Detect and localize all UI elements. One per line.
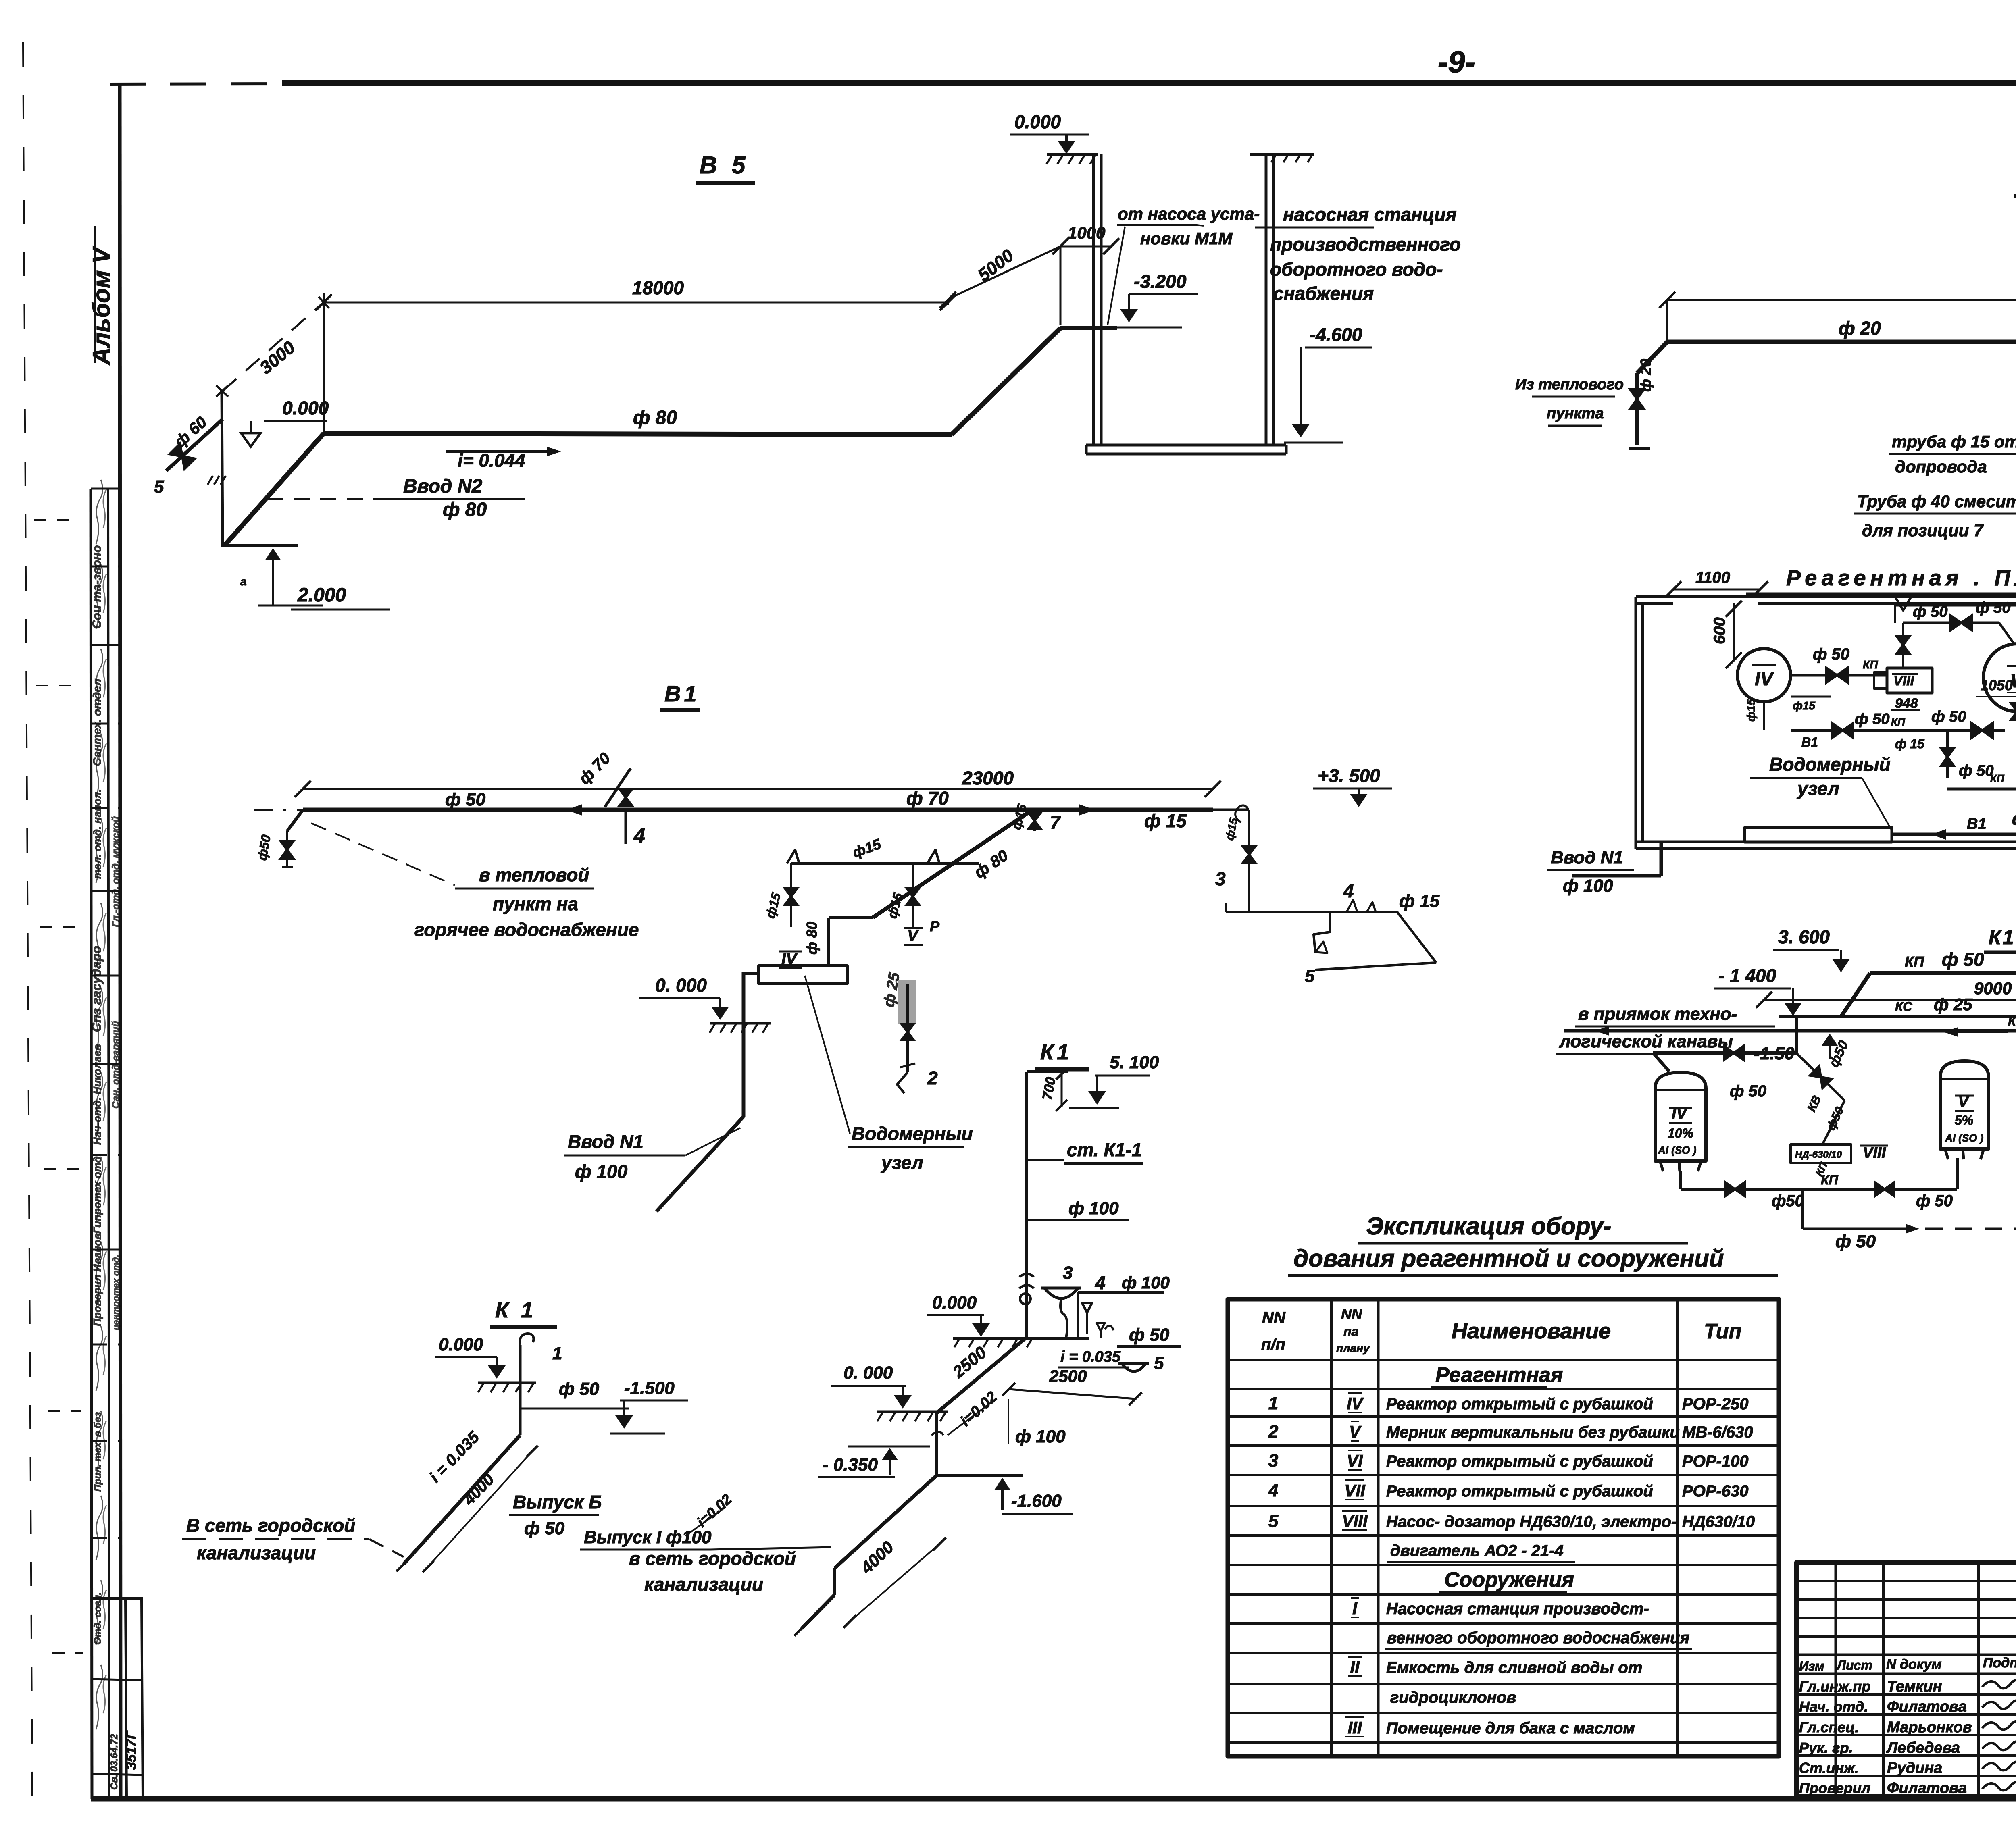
K1 f100 leader <box>1008 1399 1009 1444</box>
svg-text:Темкин: Темкин <box>1887 1678 1942 1695</box>
svg-text:Св. 03.64.72: Св. 03.64.72 <box>109 1734 120 1790</box>
svg-text:ф 50: ф 50 <box>1959 762 1993 779</box>
svg-text:4: 4 <box>633 824 645 847</box>
svg-text:10%: 10% <box>1668 1126 1693 1140</box>
svg-text:-4.600: -4.600 <box>1310 324 1362 345</box>
svg-text:V: V <box>907 927 919 945</box>
svg-text:Насосная станция производст: Насосная станция производст- <box>1386 1600 1649 1618</box>
svg-text:плану: плану <box>1336 1342 1370 1354</box>
svg-text:К17: К17 <box>2008 1014 2016 1028</box>
svg-text:5. 100: 5. 100 <box>1110 1053 1159 1072</box>
svg-text:для позиции 7: для позиции 7 <box>1862 521 1984 540</box>
B1 dimension line 23000 <box>303 788 1213 790</box>
svg-text:К1: К1 <box>1040 1040 1072 1064</box>
svg-text:5: 5 <box>154 477 164 497</box>
svg-text:в сеть городской: в сеть городской <box>629 1548 796 1569</box>
svg-text:Сои та-звоно: Сои та-звоно <box>90 545 104 629</box>
explication table frame <box>1228 1299 1779 1756</box>
svg-text:Сантех. отдел: Сантех. отдел <box>91 678 103 766</box>
svg-text:Марьонков: Марьонков <box>1887 1719 1972 1736</box>
svg-text:600: 600 <box>1711 617 1729 644</box>
K1 sink 5 <box>1122 1363 1146 1371</box>
svg-text:3: 3 <box>1268 1451 1278 1471</box>
svg-text:Экспликация обору-: Экспликация обору- <box>1366 1213 1611 1240</box>
B1 junction diagonal f80 <box>873 810 1032 918</box>
tank IV <box>1655 1072 1706 1161</box>
svg-text:Емкость для сливной воды о: Емкость для сливной воды от <box>1386 1659 1642 1677</box>
svg-text:Сооружения: Сооружения <box>1444 1568 1574 1592</box>
K17 main lower pipe <box>1564 1029 2016 1033</box>
svg-text:- 0.350: - 0.350 <box>823 1455 878 1475</box>
B1 water meter unit rect <box>759 966 847 984</box>
svg-text:0. 000: 0. 000 <box>843 1363 893 1383</box>
svg-text:VIII: VIII <box>1342 1512 1368 1531</box>
pump pit floor slab <box>1086 444 1286 447</box>
svg-text:Водомерный: Водомерный <box>1769 754 1891 775</box>
svg-text:ф 70: ф 70 <box>906 788 949 809</box>
svg-text:новки М1М: новки М1М <box>1140 229 1233 248</box>
svg-text:КС: КС <box>1895 999 1912 1014</box>
svg-text:23000: 23000 <box>962 768 1014 789</box>
svg-text:Труба ф 40 смеситель: Труба ф 40 смеситель <box>1857 492 2016 511</box>
svg-text:Реагентная . План. М1:50: Реагентная . План. М1:50 <box>1786 566 2016 590</box>
pump pit left wall <box>1092 154 1095 445</box>
svg-text:Подп.: Подп. <box>1983 1655 2016 1671</box>
svg-text:В1: В1 <box>1967 816 1987 832</box>
svg-text:насосная станция: насосная станция <box>1283 204 1457 225</box>
T3 main pipe <box>1667 340 2016 344</box>
svg-text:Гл.спец.: Гл.спец. <box>1799 1719 1859 1735</box>
svg-text:логической канавы: логической канавы <box>1559 1032 1733 1051</box>
svg-text:-9-: -9- <box>1438 45 1475 79</box>
B5 pipe stub into pit <box>1060 326 1117 330</box>
B5 riser vertical <box>323 302 325 433</box>
K1 sink 3 <box>1044 1288 1078 1298</box>
svg-text:ф 50: ф 50 <box>1813 645 1849 663</box>
plan K17 line top <box>1895 605 2016 607</box>
svg-text:Ст.инж.: Ст.инж. <box>1799 1760 1859 1776</box>
K1 reference line -1.600 <box>937 1474 1023 1477</box>
svg-text:РОР-100: РОР-100 <box>1682 1452 1749 1470</box>
svg-text:Ввод N1: Ввод N1 <box>568 1131 644 1152</box>
plan bottom wall <box>1636 841 2016 843</box>
svg-text:ф 80: ф 80 <box>633 407 677 429</box>
svg-text:ф 80: ф 80 <box>2012 809 2016 829</box>
svg-text:4: 4 <box>1268 1481 1278 1500</box>
B5 dimension 1000 <box>1060 246 1111 248</box>
left margin stamp column verticals <box>91 489 92 1799</box>
plan vvod N1 entry <box>1572 874 1661 878</box>
svg-text:канализации: канализации <box>197 1542 316 1563</box>
svg-text:ф 20: ф 20 <box>1637 359 1654 392</box>
svg-text:В 5: В 5 <box>700 152 749 179</box>
plan upper f50 line with valves <box>1903 622 1999 624</box>
svg-text:ф 100: ф 100 <box>1563 876 1613 896</box>
K1 funnel drains <box>1082 1303 1092 1313</box>
left margin lower stamp box <box>125 1598 127 1799</box>
plan dimension 1100 <box>1673 589 1760 591</box>
B5 branch pipe f60 <box>166 419 223 471</box>
svg-text:ф 50: ф 50 <box>1855 711 1889 728</box>
svg-text:+3. 500: +3. 500 <box>1318 765 1380 786</box>
B1 label v teplovoy punkt <box>311 823 455 885</box>
left margin stamp column dividers <box>91 488 121 490</box>
svg-text:РОР-250: РОР-250 <box>1682 1395 1749 1413</box>
svg-text:VI: VI <box>1347 1451 1363 1470</box>
K1 floor line <box>953 1337 1089 1340</box>
svg-text:5: 5 <box>1154 1353 1164 1373</box>
svg-text:ф 50: ф 50 <box>524 1519 565 1538</box>
svg-text:N докум: N докум <box>1886 1657 1942 1672</box>
K1 lower diagonal vypusk <box>835 1475 937 1568</box>
svg-text:0.000: 0.000 <box>439 1335 483 1354</box>
svg-text:1: 1 <box>552 1344 562 1363</box>
svg-text:i = 0.035: i = 0.035 <box>1060 1348 1121 1365</box>
svg-text:-1.600: -1.600 <box>1011 1491 1062 1511</box>
svg-text:Мерник вертикальныи без руба: Мерник вертикальныи без рубашки <box>1386 1423 1680 1441</box>
svg-text:производственного: производственного <box>1270 234 1461 255</box>
svg-text:-3.200: -3.200 <box>1134 271 1187 292</box>
svg-text:В сеть городской: В сеть городской <box>186 1515 355 1536</box>
left margin extra handwriting squiggles <box>96 480 103 544</box>
svg-text:ф 50: ф 50 <box>1942 949 1984 970</box>
B1 riser V <box>912 863 914 927</box>
reactor V circle <box>1983 644 2016 712</box>
B1 branch end diagonal <box>1397 912 1436 963</box>
svg-text:3517Г: 3517Г <box>124 1730 139 1770</box>
svg-text:ф 100: ф 100 <box>1015 1427 1066 1446</box>
svg-text:Выпуск Б: Выпуск Б <box>513 1492 602 1513</box>
svg-text:узел: узел <box>1797 778 1839 799</box>
svg-text:Нач. отд.: Нач. отд. <box>1799 1698 1868 1715</box>
svg-text:В1: В1 <box>664 681 700 706</box>
plan f15 inner lines <box>1791 696 1831 698</box>
explication table row lines <box>1228 1359 1779 1361</box>
svg-text:гидроциклонов: гидроциклонов <box>1390 1689 1516 1706</box>
svg-text:ф 100: ф 100 <box>575 1161 628 1182</box>
svg-text:NN: NN <box>1341 1306 1362 1322</box>
svg-text:Гл.-отд. отд. мужской: Гл.-отд. отд. мужской <box>110 816 121 927</box>
svg-text:Лебедева: Лебедева <box>1886 1739 1960 1756</box>
svg-text:ф 50: ф 50 <box>1976 599 2010 616</box>
svg-text:NN: NN <box>1262 1309 1286 1327</box>
svg-text:ф 25: ф 25 <box>1934 995 1972 1014</box>
svg-text:5: 5 <box>1305 966 1315 986</box>
plan vodomerny uzel rect <box>1745 828 1892 842</box>
B1 riser 4 with f70 flag <box>625 810 627 844</box>
K1 stack vertical <box>1025 1072 1028 1338</box>
svg-text:оборотного водо-: оборотного водо- <box>1270 259 1443 280</box>
svg-text:пункт на: пункт на <box>493 893 578 914</box>
svg-text:ф 50: ф 50 <box>445 790 486 809</box>
svg-text:В1: В1 <box>1801 735 1818 749</box>
svg-text:ф 50: ф 50 <box>1129 1325 1170 1345</box>
svg-text:0.000: 0.000 <box>1014 111 1061 132</box>
svg-text:допровода: допровода <box>1895 457 1987 476</box>
svg-text:КП: КП <box>1863 658 1878 671</box>
svg-text:7: 7 <box>1050 812 1061 833</box>
plan mid f50 line with valves <box>1791 729 2005 732</box>
pump VIII box <box>1887 668 1932 693</box>
sheet left border line <box>120 83 121 1799</box>
sheet top border line <box>282 80 2016 86</box>
svg-text:1100: 1100 <box>1695 569 1730 587</box>
svg-text:в тепловой: в тепловой <box>479 864 589 885</box>
svg-text:ф 50: ф 50 <box>1931 708 1966 725</box>
svg-text:КП: КП <box>1990 772 2005 784</box>
svg-text:ф15: ф15 <box>1793 699 1815 712</box>
svg-text:а: а <box>240 575 247 588</box>
svg-text:ф 50: ф 50 <box>1916 1192 1953 1210</box>
svg-text:от насоса уста-: от насоса уста- <box>1118 204 1260 223</box>
svg-text:Из теплового: Из теплового <box>1515 376 1624 393</box>
B5 inlet corner diagonal <box>224 433 324 546</box>
B1 riser IV <box>790 863 792 927</box>
B5 dimension 3000 diagonal <box>223 304 322 391</box>
explication table column lines <box>1330 1299 1333 1756</box>
B1 vertical to vvod <box>742 972 746 1117</box>
B1 main pipe f70 <box>303 808 1213 812</box>
svg-text:2: 2 <box>927 1067 938 1088</box>
svg-text:0. 000: 0. 000 <box>655 975 707 996</box>
B1 step to water meter <box>829 916 873 919</box>
B5 riser to pump pit diagonal <box>952 328 1060 435</box>
svg-text:5: 5 <box>1268 1511 1279 1531</box>
svg-text:НД-630/10: НД-630/10 <box>1795 1149 1842 1160</box>
svg-text:Проверил: Проверил <box>1799 1780 1870 1796</box>
svg-text:IV: IV <box>1347 1394 1364 1413</box>
title block left column verticals <box>1835 1563 1837 1796</box>
K1 vertical drop at -0.350 <box>935 1413 938 1475</box>
svg-text:ф 50: ф 50 <box>559 1379 600 1399</box>
B5 slope arrow i=0.044 <box>446 450 553 453</box>
title block header row line <box>1797 1654 2016 1656</box>
title block outer frame <box>1797 1563 2016 1796</box>
svg-text:ф 50: ф 50 <box>1730 1082 1766 1100</box>
plan 1050 650 dim line <box>1976 696 2016 697</box>
svg-text:3. 600: 3. 600 <box>1778 926 1830 947</box>
svg-text:канализации: канализации <box>644 1574 763 1595</box>
title block revision rows <box>1797 1580 2016 1582</box>
svg-text:ф50: ф50 <box>1772 1192 1804 1210</box>
B1 hook 5 <box>1314 912 1330 952</box>
svg-text:i= 0.044: i= 0.044 <box>458 450 525 471</box>
svg-text:ф 15: ф 15 <box>1144 810 1187 831</box>
svg-text:горячее водоснабжение: горячее водоснабжение <box>414 919 639 940</box>
B5 dimension 5000 <box>948 246 1060 299</box>
svg-text:Водомерныи: Водомерныи <box>852 1123 973 1144</box>
B5 left standpipe <box>222 391 223 547</box>
svg-text:Ввод N2: Ввод N2 <box>403 476 482 497</box>
svg-text:Изм: Изм <box>1799 1659 1824 1673</box>
svg-text:948: 948 <box>1895 696 1918 711</box>
title block signature row lines <box>1797 1693 2016 1696</box>
svg-text:ф 80: ф 80 <box>804 922 820 955</box>
K17 branch with rotated valve <box>1796 1053 1845 1101</box>
svg-text:Лист: Лист <box>1836 1658 1872 1673</box>
svg-text:5%: 5% <box>1955 1113 1973 1128</box>
svg-text:I: I <box>1352 1599 1358 1618</box>
K17 bottom pipe between tanks <box>1681 1188 1957 1191</box>
B1 thin pipe continuation right <box>1213 809 1249 811</box>
reactor IV circle <box>1737 649 1791 702</box>
svg-text:Помещение для бака с маслом: Помещение для бака с маслом <box>1386 1719 1635 1737</box>
B1 vvod N1 diagonal <box>656 1117 744 1211</box>
svg-text:ст. К1-1: ст. К1-1 <box>1067 1139 1142 1160</box>
B1 riser 2 with valve <box>906 984 909 1072</box>
svg-text:Альбом V: Альбом V <box>88 246 115 366</box>
svg-text:Al (SO ): Al (SO ) <box>1658 1144 1696 1156</box>
KC f25 line <box>1779 1015 2016 1018</box>
B1 riser 7 with valve <box>1033 810 1036 831</box>
svg-text:4: 4 <box>1095 1272 1106 1293</box>
svg-text:венного оборотного водоснабж: венного оборотного водоснабжения <box>1387 1629 1689 1647</box>
svg-text:- 1 400: - 1 400 <box>1718 965 1776 986</box>
svg-text:ф 100: ф 100 <box>1068 1198 1119 1218</box>
svg-text:труба ф 15 от во-: труба ф 15 от во- <box>1892 432 2016 451</box>
B1 branch 3 riser <box>1248 810 1250 912</box>
K1L riser 1 <box>519 1345 522 1435</box>
K17 dashed suction line <box>1801 1189 1804 1229</box>
sheet bottom border line <box>91 1796 2016 1802</box>
svg-text:V: V <box>1349 1422 1362 1441</box>
svg-text:Гл.инж.пр: Гл.инж.пр <box>1799 1678 1870 1695</box>
svg-text:Филатова: Филатова <box>1887 1780 1967 1797</box>
svg-text:Al (SO ): Al (SO ) <box>1945 1132 1983 1144</box>
svg-text:пункта: пункта <box>1547 405 1604 422</box>
K17 top pipe <box>1870 971 2016 975</box>
plan left wall <box>1635 597 1637 849</box>
svg-text:Ввод N1: Ввод N1 <box>1551 848 1623 868</box>
svg-text:ф 80: ф 80 <box>443 499 487 520</box>
T3 dimension line 23000 <box>1667 299 2016 301</box>
plan V1 f80 main line <box>1892 833 2016 836</box>
svg-text:Сан. отд-варяний: Сан. отд-варяний <box>110 1021 121 1109</box>
svg-text:Реактор открытый с рубашко: Реактор открытый с рубашкой <box>1386 1395 1653 1413</box>
B1 branch horizontal to 4 and 5 <box>1249 911 1397 913</box>
svg-text:ф 50: ф 50 <box>1835 1232 1876 1251</box>
svg-text:VIII: VIII <box>1863 1144 1886 1161</box>
svg-text:2500: 2500 <box>1049 1367 1087 1386</box>
pump ND-630/10 box <box>1791 1144 1851 1163</box>
svg-text:НД630/10: НД630/10 <box>1682 1513 1755 1531</box>
svg-text:Филатова: Филатова <box>1887 1698 1967 1715</box>
plan top wall <box>1636 595 2016 598</box>
svg-text:па: па <box>1343 1324 1358 1339</box>
B5 level 2.000 arrow <box>272 551 274 605</box>
svg-text:9000: 9000 <box>1974 979 2012 998</box>
svg-text:Рудина: Рудина <box>1887 1760 1942 1777</box>
B1 left end drop with valve <box>287 810 303 831</box>
B5 dimension line 18000 <box>324 302 948 304</box>
svg-text:IV: IV <box>1755 668 1774 690</box>
svg-text:ф 20: ф 20 <box>1839 318 1881 339</box>
svg-text:0.000: 0.000 <box>282 397 329 418</box>
svg-text:ф15: ф15 <box>1745 699 1757 722</box>
svg-text:ф 15: ф 15 <box>1895 737 1925 751</box>
K16 dimension 9000 <box>1764 999 2016 1001</box>
svg-text:КП: КП <box>1891 716 1906 728</box>
svg-text:Реактор открытый с рубашкой: Реактор открытый с рубашкой <box>1386 1482 1653 1500</box>
svg-text:1050: 1050 <box>1981 677 2013 693</box>
svg-text:в приямок техно-: в приямок техно- <box>1578 1004 1737 1024</box>
svg-text:Тип: Тип <box>1704 1320 1741 1343</box>
svg-text:II: II <box>1350 1658 1360 1677</box>
B5 main pipe f80 <box>324 433 952 435</box>
K1 main diagonal from floor <box>937 1338 1025 1413</box>
svg-text:Р: Р <box>930 918 940 934</box>
svg-text:ф 15: ф 15 <box>1399 891 1440 911</box>
svg-text:Насос- дозатор НД630/10, элект: Насос- дозатор НД630/10, электро- <box>1386 1513 1677 1531</box>
svg-text:узел: узел <box>881 1152 923 1173</box>
plan valve down to VII <box>1946 730 1949 778</box>
svg-text:3: 3 <box>1215 868 1226 889</box>
svg-text:III: III <box>1347 1718 1362 1737</box>
tank V <box>1940 1061 1989 1149</box>
svg-text:-1.500: -1.500 <box>624 1378 675 1398</box>
svg-text:К16, К17: К16, К17 <box>1989 926 2016 949</box>
svg-text:1000: 1000 <box>1068 223 1105 242</box>
svg-text:снабжения: снабжения <box>1273 283 1374 304</box>
T3 left drop to heat point <box>1637 342 1667 373</box>
svg-text:КП: КП <box>1905 953 1924 970</box>
svg-text:Реагентная: Реагентная <box>1435 1363 1563 1387</box>
sheet left fold dash-dot line <box>23 42 32 1798</box>
title block signatures scribbles <box>1982 1679 2016 1688</box>
svg-text:2: 2 <box>1268 1422 1279 1442</box>
B5 star node at riser top <box>319 297 329 308</box>
svg-text:2.000: 2.000 <box>297 585 346 606</box>
svg-text:Реактор открытый с рубашко: Реактор открытый с рубашкой <box>1386 1452 1653 1470</box>
K1 stack fitting <box>1019 1274 1034 1277</box>
svg-text:п/п: п/п <box>1261 1336 1285 1353</box>
svg-text:ф 100: ф 100 <box>1122 1273 1170 1292</box>
K1 dim 4000 <box>850 1544 939 1621</box>
svg-text:3: 3 <box>1063 1263 1073 1283</box>
svg-text:РОР-630: РОР-630 <box>1682 1482 1749 1500</box>
svg-text:0.000: 0.000 <box>932 1293 977 1313</box>
svg-text:4: 4 <box>1343 880 1354 901</box>
K1L outfall diagonal <box>404 1435 520 1564</box>
svg-text:VII: VII <box>1344 1481 1366 1500</box>
svg-text:Рук. гр.: Рук. гр. <box>1799 1739 1853 1756</box>
pump pit right wall <box>1265 154 1268 445</box>
svg-text:К 1: К 1 <box>495 1298 536 1322</box>
K1 stack top dim 700 <box>1027 1070 1068 1073</box>
svg-text:18000: 18000 <box>632 277 684 298</box>
svg-text:1: 1 <box>1268 1394 1278 1413</box>
plan pipe IV to VIII with valve <box>1791 674 1887 677</box>
svg-text:дования реагентной и сооруж: дования реагентной и сооружений <box>1293 1245 1724 1272</box>
svg-text:Наименование: Наименование <box>1452 1319 1611 1343</box>
left margin dash-dot guides <box>34 519 77 521</box>
svg-text:двигатель АО2 - 21-4: двигатель АО2 - 21-4 <box>1390 1542 1564 1560</box>
B1 branch line f15 risers <box>791 862 979 865</box>
svg-text:МВ-6/630: МВ-6/630 <box>1682 1423 1753 1441</box>
svg-text:центротех отд.: центротех отд. <box>111 1255 121 1330</box>
svg-text:VIII: VIII <box>1893 673 1915 689</box>
K17 pipe top-left to tank IV <box>1653 1051 1796 1055</box>
